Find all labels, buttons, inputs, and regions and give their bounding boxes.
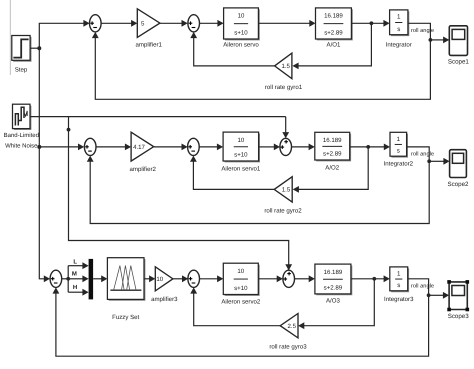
sum S2 (minus roll-rate feedback): [188, 15, 200, 32]
wire A/O2 to Integrator2: [350, 146, 385, 148]
svg-text:amplifier3: amplifier3: [151, 296, 178, 303]
transfer-fcn block A/O3 16.189/(s+2.89): [315, 264, 352, 305]
wire gyro2 output to sum S4 bottom: [193, 161, 274, 189]
wire roll angle feedback row3: [56, 293, 429, 356]
svg-text:10: 10: [238, 13, 245, 20]
gain block roll rate gyro3: [269, 314, 307, 351]
wire step line down to row3 sum S6: [39, 147, 44, 279]
junction L/M/H fork: [66, 277, 70, 281]
wire roll-rate tap down to gyro3: [304, 279, 375, 326]
wire Fuzzy Set to amplifier3: [144, 278, 150, 280]
junction roll-rate tap row3: [372, 277, 376, 281]
sum S1 (step - feedback): [90, 15, 102, 32]
wire A/O1 to Integrator: [351, 22, 384, 24]
sum S3 (step - feedback row2): [84, 138, 96, 155]
svg-text:s+10: s+10: [234, 29, 248, 36]
gain block roll rate gyro1: [265, 53, 303, 91]
wire sum S3 to amplifier2: [96, 146, 126, 148]
wire sum S7 to Aileron servo2: [200, 278, 218, 280]
wire branch to Scope3: [429, 294, 444, 296]
svg-text:M: M: [72, 271, 77, 278]
svg-text:roll angle: roll angle: [411, 150, 434, 157]
junction roll-rate tap row1: [370, 21, 374, 25]
svg-text:s+2.89: s+2.89: [323, 150, 342, 157]
svg-text:s+10: s+10: [234, 285, 248, 292]
svg-text:roll angle: roll angle: [411, 283, 434, 290]
svg-text:Aileron servo1: Aileron servo1: [221, 165, 261, 172]
wire roll angle feedback row2: [90, 161, 429, 223]
svg-text:Fuzzy Set: Fuzzy Set: [112, 314, 139, 321]
wire L line into mux: [68, 265, 83, 267]
svg-text:White Noise: White Noise: [5, 143, 38, 150]
junction step branch: [37, 46, 41, 50]
svg-text:2.5: 2.5: [288, 323, 297, 330]
svg-text:H: H: [73, 284, 77, 291]
junction scope1 branch: [429, 38, 433, 42]
svg-text:s: s: [397, 26, 400, 33]
wire Integrator2 output roll angle to corner: [407, 147, 430, 161]
scope block Scope3: [447, 280, 469, 320]
wire Aileron servo2 to sum S8: [258, 278, 277, 280]
svg-text:16.189: 16.189: [324, 269, 343, 276]
svg-text:10: 10: [237, 137, 244, 144]
wire Integrator output roll angle to corner: [408, 23, 431, 40]
page border fragment: [9, 0, 11, 75]
junction roll-rate tap row2: [366, 145, 370, 149]
svg-text:16.189: 16.189: [324, 13, 343, 20]
wire Aileron servo1 to sum S5: [259, 146, 275, 148]
wire M line into mux: [68, 278, 83, 280]
transfer-fcn block Aileron servo2 10/(s+10): [221, 263, 261, 305]
wire sum S8 to A/O3: [295, 278, 310, 280]
wire sum S5 to A/O2: [292, 146, 310, 148]
svg-text:roll angle: roll angle: [411, 27, 434, 34]
integrator block Integrator3 1/s: [384, 267, 414, 303]
svg-text:roll rate gyro2: roll rate gyro2: [264, 207, 302, 214]
svg-text:amplifier1: amplifier1: [135, 42, 162, 49]
amplifier1 gain block: [135, 9, 162, 49]
wire junction up to sum S1: [39, 23, 84, 48]
svg-text:s: s: [397, 148, 400, 155]
wire white noise output: [30, 116, 286, 118]
svg-text:Integrator3: Integrator3: [384, 296, 414, 303]
svg-text:A/O1: A/O1: [327, 42, 341, 49]
wire sum S4 to Aileron servo1: [199, 146, 217, 148]
junction scope2 branch: [427, 159, 431, 163]
svg-text:roll rate gyro3: roll rate gyro3: [269, 343, 307, 350]
mux block (black bar): [89, 259, 94, 300]
svg-text:Scope1: Scope1: [448, 58, 470, 65]
wire branch to Scope2: [429, 160, 444, 162]
wire amplifier2 to sum S4: [154, 146, 182, 148]
wire roll-rate tap down to gyro1: [298, 23, 372, 66]
svg-text:10: 10: [156, 276, 163, 283]
svg-text:1.5: 1.5: [282, 187, 291, 194]
junction scope3 branch: [427, 293, 431, 297]
wire sum S2 to Aileron servo: [200, 22, 219, 24]
wire step output to junction: [30, 47, 39, 49]
svg-text:5: 5: [141, 20, 145, 27]
svg-text:Aileron servo2: Aileron servo2: [221, 298, 261, 305]
svg-text:s+2.89: s+2.89: [324, 284, 343, 291]
transfer-fcn block A/O2 16.189/(s+2.89): [315, 132, 351, 171]
wire gyro3 output to sum S7 bottom: [194, 293, 281, 326]
svg-text:s+2.89: s+2.89: [324, 29, 343, 36]
wire sum S6 output to L/M/H fork: [62, 278, 68, 280]
wire branch to Scope1: [430, 39, 443, 41]
svg-text:A/O2: A/O2: [325, 164, 339, 171]
junction row2 input: [37, 145, 41, 149]
wire amplifier3 to sum S7: [173, 278, 183, 280]
band-limited white noise source block: [4, 104, 39, 149]
wire noise branch down to row3: [69, 117, 289, 265]
svg-text:10: 10: [237, 268, 244, 275]
svg-text:1: 1: [397, 14, 401, 21]
fuzzy logic controller block Fuzzy Set: [107, 258, 145, 322]
svg-text:Step: Step: [15, 67, 28, 74]
sum S7 (minus roll-rate feedback row3): [188, 270, 200, 287]
transfer-fcn block Aileron servo 10/(s+10): [223, 8, 260, 49]
svg-text:Integrator2: Integrator2: [384, 161, 414, 168]
wire sum S1 to amplifier1: [101, 22, 132, 24]
sum S8 (add white noise row3): [283, 270, 295, 287]
amplifier2 gain block: [129, 132, 156, 173]
step source block Step: [12, 36, 32, 74]
svg-text:16.189: 16.189: [323, 137, 342, 144]
wire noise drop into sum S5: [285, 117, 287, 133]
svg-text:4.17: 4.17: [133, 144, 145, 151]
scope block Scope1: [448, 26, 470, 66]
gain block roll rate gyro2: [264, 177, 302, 215]
wire fork vertical: [67, 266, 69, 293]
wire H line into mux: [68, 291, 83, 293]
wire gyro1 output to sum S2 bottom: [194, 38, 275, 66]
svg-text:s+10: s+10: [234, 151, 248, 158]
svg-text:s: s: [397, 282, 400, 289]
scope block Scope2: [448, 150, 470, 188]
svg-text:roll rate gyro1: roll rate gyro1: [265, 84, 303, 91]
transfer-fcn block Aileron servo1 10/(s+10): [221, 132, 261, 172]
wire step line down to row2 sum S3: [39, 48, 78, 147]
svg-text:amplifier2: amplifier2: [129, 166, 156, 173]
integrator block Integrator2 1/s: [384, 132, 414, 167]
svg-text:A/O3: A/O3: [326, 298, 340, 305]
wire roll-rate tap down to gyro2: [298, 147, 368, 190]
sum S6 (step - feedback row3): [50, 270, 62, 287]
svg-text:Scope3: Scope3: [448, 313, 470, 320]
wire Aileron servo to A/O1: [258, 22, 310, 24]
wire roll angle feedback row1: [95, 38, 430, 100]
wire Integrator3 output roll angle to corner: [408, 279, 429, 296]
svg-text:L: L: [73, 258, 77, 265]
svg-text:1: 1: [397, 136, 401, 143]
svg-text:1.5: 1.5: [281, 63, 290, 70]
svg-text:Band-Limited: Band-Limited: [4, 132, 39, 139]
sum S4 (minus roll-rate feedback row2): [188, 138, 200, 155]
wire A/O3 to Integrator3: [351, 278, 384, 280]
svg-text:Scope2: Scope2: [448, 181, 470, 188]
svg-text:Aileron servo: Aileron servo: [223, 42, 259, 49]
wire amplifier1 to sum S2: [160, 22, 182, 24]
transfer-fcn block A/O1 16.189/(s+2.89): [316, 8, 353, 49]
svg-text:Integrator: Integrator: [386, 42, 412, 49]
svg-text:1: 1: [397, 271, 401, 278]
integrator block Integrator 1/s: [386, 10, 412, 49]
wire mux to Fuzzy Set: [93, 278, 102, 280]
sum S5 (add white noise row2): [280, 138, 292, 155]
junction white noise branch: [67, 128, 71, 132]
amplifier3 gain block: [151, 267, 178, 303]
